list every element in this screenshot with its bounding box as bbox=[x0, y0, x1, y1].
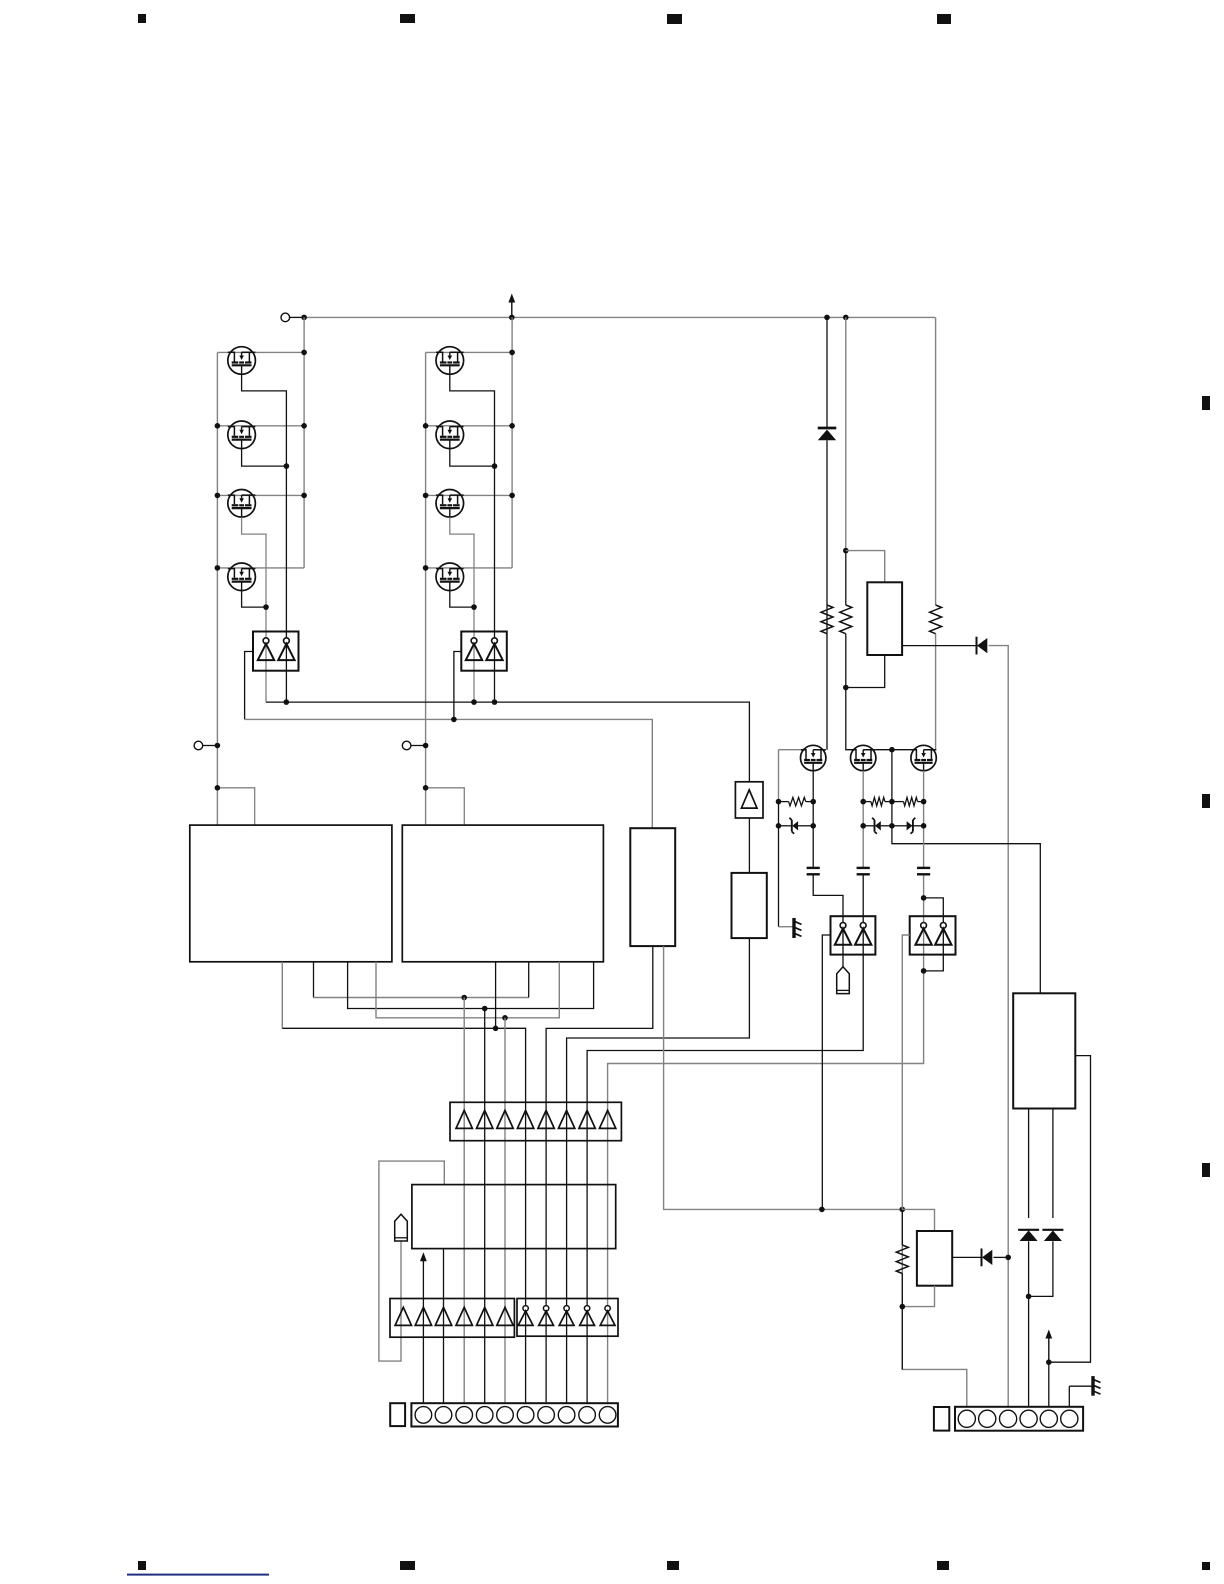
wire IC3 data stub d bbox=[282, 962, 525, 1103]
wire C3 to IC7 right bbox=[924, 898, 944, 916]
diode D2 bbox=[977, 637, 988, 655]
wire bus1 tail into buffer bbox=[0, 0, 1, 1]
registration mark right 3 bbox=[1202, 1163, 1210, 1177]
wire Q4 source jog bbox=[242, 591, 266, 608]
wire RY1 output bbox=[952, 1256, 981, 1258]
node gate terminal column 2 bbox=[402, 741, 425, 750]
wire D7 join bbox=[1029, 1241, 1053, 1296]
wire top supply bus bbox=[304, 316, 935, 318]
connector CN1 bbox=[411, 1403, 618, 1426]
wire signal line 8 bbox=[608, 971, 924, 1403]
thermal sensor TH1 bbox=[837, 955, 850, 994]
wire row rail Q2 bbox=[217, 425, 304, 427]
wire Q7 source jog bbox=[450, 517, 474, 631]
wire CN2 pin6 ground bbox=[1068, 1386, 1070, 1407]
transistor Q6 bbox=[436, 421, 464, 449]
registration mark right 2 bbox=[1202, 794, 1210, 808]
relay RY1 bbox=[917, 1231, 952, 1286]
IC inverter array lower right bbox=[517, 1299, 618, 1337]
wire U1 to RA1 bbox=[748, 818, 750, 873]
IC buffer array lower left bbox=[390, 1299, 514, 1338]
wire IC3 data stub b bbox=[348, 962, 594, 1009]
wire row rail Q7 bbox=[426, 494, 512, 496]
wire enable bus bbox=[245, 719, 653, 828]
registration mark right 1 bbox=[1202, 396, 1210, 410]
junction D7 join bbox=[1026, 1294, 1032, 1300]
transistor Q11 bbox=[911, 745, 936, 770]
junction top bus arrow node bbox=[509, 315, 515, 321]
resistor R3 bbox=[930, 605, 942, 634]
junction RY1 bottom bbox=[900, 1304, 906, 1310]
junction D5 end bbox=[921, 823, 927, 829]
junction rail dots column 1 bbox=[215, 350, 307, 571]
resistor R7 bbox=[896, 1209, 908, 1369]
resistor network RA2 bbox=[630, 828, 675, 946]
wire R3 feed bbox=[935, 317, 937, 749]
IC IC4 driver logic bbox=[402, 825, 603, 962]
wire regulator U2 top feed bbox=[846, 551, 885, 583]
wire Q1 source jog bbox=[242, 374, 287, 631]
gate driver IC7 bbox=[910, 916, 956, 954]
wire Q10 Q11 gate link bbox=[876, 749, 911, 751]
wire row rail Q3 bbox=[217, 494, 304, 496]
IC buffer array upper bbox=[450, 1102, 621, 1140]
diode D5 zener bbox=[892, 818, 924, 834]
wire IC2 enable stub bbox=[454, 652, 461, 720]
junction Q8 source bbox=[471, 604, 477, 610]
junction gate link rail bbox=[889, 747, 895, 753]
junction rail IC jog column 1 bbox=[215, 785, 221, 791]
wire IC1 enable stub bbox=[245, 652, 253, 720]
resistor R5 bbox=[863, 797, 892, 805]
transistor Q7 bbox=[436, 490, 464, 518]
resistor R6 bbox=[892, 797, 924, 805]
gate driver IC1 bbox=[253, 632, 299, 671]
wire Q9 gate rail bbox=[779, 750, 801, 927]
wire Q11 source bbox=[923, 771, 925, 868]
wire CN2 pin5 bbox=[1048, 1362, 1050, 1407]
buffer U1 bbox=[735, 782, 763, 818]
junction gate rail column 1 bbox=[215, 743, 221, 749]
junction data bus a bbox=[461, 995, 467, 1001]
arrow signal out bbox=[1045, 1330, 1052, 1363]
registration mark top 3 bbox=[667, 14, 682, 24]
IC IC3 driver logic bbox=[190, 825, 392, 962]
wire Q5 source jog bbox=[450, 374, 495, 631]
junction output bus 3 bbox=[492, 699, 498, 705]
wire driver input IC2 pass black bbox=[494, 632, 496, 703]
junction data bus c bbox=[502, 1015, 508, 1021]
capacitor C1 bbox=[807, 868, 820, 874]
capacitor C2 bbox=[857, 868, 870, 874]
wire Q3 source jog bbox=[242, 517, 266, 631]
registration mark top 1 bbox=[138, 14, 146, 23]
wire signal line 6 bbox=[567, 938, 750, 1403]
wire IC6 through left bbox=[842, 916, 844, 954]
wire row rail Q1 bbox=[217, 351, 304, 353]
gate driver IC2 bbox=[461, 632, 507, 671]
junction top bus col1 bbox=[301, 315, 307, 321]
wire driver output bus bbox=[266, 702, 749, 782]
diode D8 bbox=[982, 1249, 993, 1267]
wire IC7 through left bbox=[923, 916, 925, 971]
junction feedback node bbox=[1046, 1359, 1052, 1365]
wire driver input IC2 pass gray bbox=[473, 632, 475, 703]
transistor Q9 bbox=[801, 745, 826, 770]
transistor Q5 bbox=[436, 347, 464, 375]
gate driver IC6 bbox=[831, 916, 876, 954]
junction rail dots column 2 bbox=[423, 350, 515, 571]
wire row rail Q6 bbox=[426, 425, 512, 427]
junction enable bus bbox=[451, 717, 457, 723]
wire RB1 to D6 bbox=[1028, 1109, 1030, 1219]
registration mark bottom 3 bbox=[667, 1561, 679, 1570]
junction Q6 source bbox=[492, 463, 498, 469]
wire row rail Q8 bbox=[426, 567, 512, 569]
junction C3 split bbox=[921, 895, 927, 901]
junction RA2 line R7 top bbox=[900, 1207, 906, 1213]
transistor Q4 bbox=[228, 563, 256, 591]
transistor Q2 bbox=[228, 421, 256, 449]
junction IC7 output bbox=[921, 968, 927, 974]
registration mark top 2 bbox=[400, 14, 415, 23]
wire R2 feed bbox=[846, 317, 855, 749]
wire RB1 side tap bbox=[1049, 1056, 1091, 1363]
wire Q6 source jog bbox=[450, 449, 495, 467]
wire U2 bottom return bbox=[846, 655, 885, 688]
junction Q4 source bbox=[263, 604, 269, 610]
wire IC4 stub d bbox=[495, 962, 497, 1029]
resistor R1 bbox=[821, 605, 833, 634]
wire IC7 through right bbox=[942, 916, 944, 954]
junction top bus R2 node bbox=[843, 315, 849, 321]
wire D2 to CN2 pin3 bbox=[989, 646, 1009, 1407]
wire Q10 source bbox=[862, 771, 864, 868]
connector CN2 key bbox=[934, 1407, 949, 1431]
registration mark top 4 bbox=[937, 14, 951, 24]
wire driver input IC1 pass gray bbox=[265, 632, 267, 703]
wire IC6 input bbox=[822, 935, 830, 1209]
wire drain rail column 2 bbox=[511, 317, 513, 568]
wire D8 to pin3 line bbox=[994, 1256, 1009, 1258]
transistor Q8 bbox=[436, 563, 464, 591]
wire row rail Q5 bbox=[426, 351, 512, 353]
junction D3 ends bbox=[776, 823, 816, 829]
wire sense line bbox=[443, 1249, 445, 1404]
wire drain rail column 1 bbox=[303, 317, 305, 568]
wire signal line 1 bbox=[463, 998, 465, 1404]
junction rail IC jog column 2 bbox=[423, 785, 429, 791]
arrow supply direction bbox=[508, 294, 515, 318]
capacitor C3 bbox=[917, 868, 930, 874]
wire mid gate rail bbox=[892, 750, 1040, 994]
wire D6 to CN2 pin4 bbox=[1028, 1241, 1030, 1407]
wire Q9 source bbox=[812, 771, 814, 868]
wire rail to IC top column 2 bbox=[426, 788, 465, 825]
footer rule bbox=[127, 1574, 269, 1576]
wire IC3 data stub a bbox=[314, 962, 529, 998]
wire RB1 to D7 bbox=[1052, 1109, 1054, 1219]
resistor R4 bbox=[779, 797, 814, 805]
registration mark bottom 2 bbox=[400, 1561, 415, 1570]
junction gate rail column 2 bbox=[423, 743, 429, 749]
junction top bus D1 node bbox=[824, 315, 830, 321]
wire IC3 data stub c bbox=[376, 962, 559, 1018]
junction Q2 source bbox=[284, 463, 290, 469]
transistor Q3 bbox=[228, 490, 256, 518]
wire C2 to IC6 bbox=[862, 875, 864, 916]
wire gate rail column 1 bbox=[216, 352, 218, 825]
wire IC7 input bbox=[902, 935, 967, 1407]
transistor Q1 bbox=[228, 347, 256, 375]
node gate terminal column 1 bbox=[194, 741, 217, 750]
junction data bus d bbox=[493, 1026, 499, 1032]
diode D3 zener bbox=[779, 818, 814, 834]
regulator U2 bbox=[867, 582, 902, 655]
diode D7 bbox=[1042, 1230, 1063, 1241]
IC IC5 main controller bbox=[412, 1185, 616, 1249]
wire driver input IC1 pass black bbox=[285, 632, 287, 703]
wire IC6 through right bbox=[862, 916, 864, 954]
junction R4 ends bbox=[776, 799, 816, 805]
wire Q2 source jog bbox=[242, 449, 287, 467]
LED indicator bbox=[395, 1214, 408, 1241]
diode D1 bbox=[818, 317, 837, 749]
registration mark bottom 1 bbox=[138, 1561, 146, 1570]
wire signal line 2 bbox=[484, 1009, 486, 1404]
junction U2 return bbox=[843, 685, 849, 691]
wire Q8 source jog bbox=[450, 591, 474, 608]
ground chassis 2 bbox=[1069, 1376, 1100, 1396]
transistor Q10 bbox=[851, 745, 876, 770]
junction R6 end bbox=[921, 799, 927, 805]
resistor pack RB1 bbox=[1013, 993, 1075, 1108]
wire signal line 7 bbox=[587, 955, 863, 1404]
wire R7 bypass top bbox=[902, 1209, 934, 1231]
junction output bus 1 bbox=[284, 699, 290, 705]
registration mark bottom 5 bbox=[1202, 1562, 1210, 1570]
wire gate rail column 2 bbox=[425, 352, 427, 825]
wire rail to IC top column 1 bbox=[217, 788, 254, 825]
wire signal line 5 bbox=[546, 946, 653, 1403]
junction D4 ends bbox=[860, 823, 894, 829]
wire signal line 3 bbox=[504, 1018, 506, 1403]
wire C1 to IC6 bbox=[813, 875, 843, 916]
ground chassis 1 bbox=[779, 918, 802, 938]
resistor R2 bbox=[840, 605, 852, 634]
registration mark bottom 4 bbox=[937, 1561, 949, 1570]
node VCC terminal bbox=[281, 313, 304, 322]
wire loop from LED bbox=[379, 1161, 444, 1361]
junction data bus b bbox=[482, 1006, 488, 1012]
wire signal line 4 bbox=[525, 1102, 527, 1403]
wire C3 node bbox=[923, 875, 925, 916]
connector CN2 bbox=[955, 1407, 1083, 1431]
junction R2 regulator tap bbox=[843, 548, 849, 554]
wire RA2 gray output bbox=[664, 946, 903, 1209]
diode D6 bbox=[1018, 1230, 1039, 1241]
wire RY1 bypass bottom bbox=[902, 1286, 934, 1307]
connector CN1 key bbox=[390, 1403, 405, 1426]
wire row rail Q4 bbox=[217, 567, 304, 569]
junction R5 ends bbox=[860, 799, 894, 805]
wire reset line bbox=[420, 1252, 427, 1403]
junction output bus 2 bbox=[471, 699, 477, 705]
wire IC7 outputs join bbox=[924, 955, 944, 971]
wire U2 output bbox=[902, 645, 976, 647]
resistor network RA1 bbox=[732, 873, 767, 938]
diode D4 zener bbox=[863, 818, 892, 834]
junction RA2 line IC6 input bbox=[819, 1207, 825, 1213]
junction D8 node bbox=[1005, 1255, 1011, 1261]
